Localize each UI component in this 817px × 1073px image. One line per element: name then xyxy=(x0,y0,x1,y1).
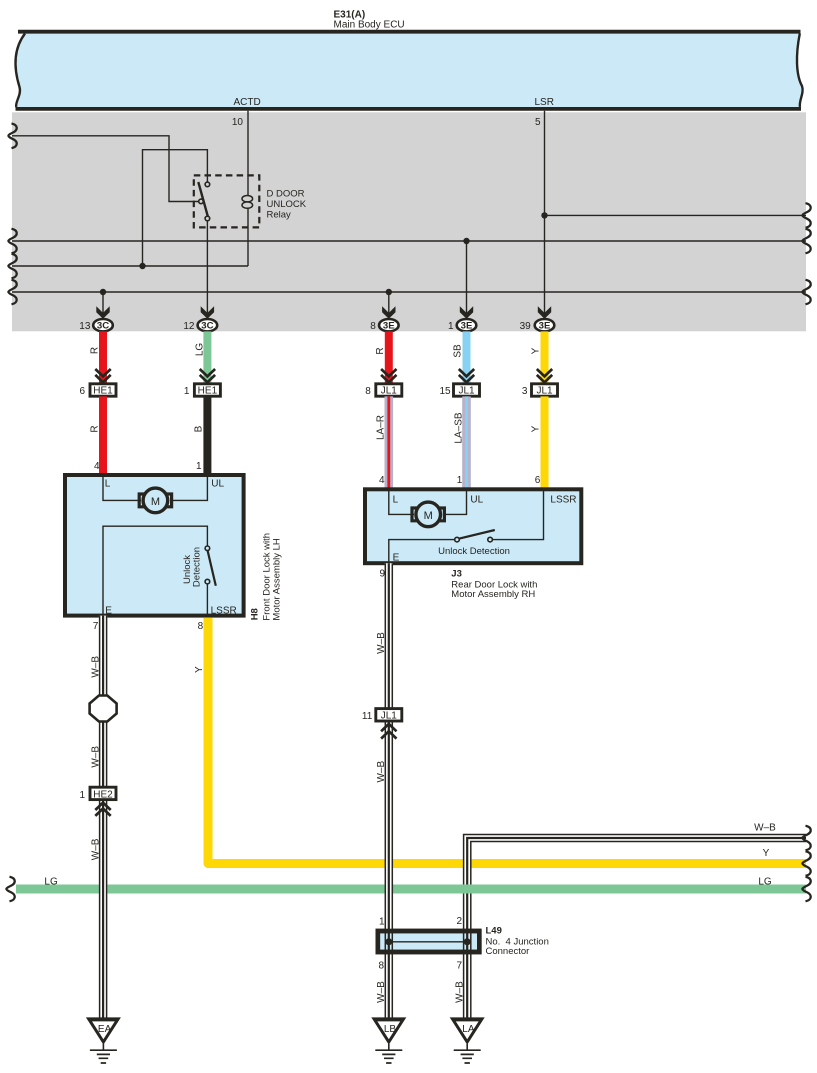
connector box 11 JL1 xyxy=(376,709,402,721)
cut squiggles right edge xyxy=(802,203,810,228)
svg-text:JL1: JL1 xyxy=(536,386,553,397)
svg-text:1: 1 xyxy=(79,790,85,801)
connector box 3 JL1 xyxy=(532,384,558,396)
H8 switch contacts xyxy=(205,546,210,551)
svg-text:Main Body ECU: Main Body ECU xyxy=(334,20,405,31)
svg-text:R: R xyxy=(375,347,386,354)
svg-text:Y: Y xyxy=(531,425,542,432)
wire W-B horizontal from right edge xyxy=(463,834,806,930)
connector box 1 HE1 xyxy=(194,384,220,396)
H8 wire L to motor xyxy=(103,476,141,500)
svg-text:1: 1 xyxy=(379,917,385,928)
cut squiggles left edge xyxy=(8,124,16,149)
svg-text:3E: 3E xyxy=(539,321,551,332)
svg-text:2: 2 xyxy=(456,916,462,927)
svg-text:39: 39 xyxy=(520,321,532,332)
svg-text:L: L xyxy=(393,495,399,506)
wire: relay switch bottom contact down to connector 12 xyxy=(206,221,208,320)
connector 8 3E: oval xyxy=(379,319,399,331)
wire Y yellow from LSSR down and right xyxy=(208,618,806,864)
svg-text:HE2: HE2 xyxy=(93,790,113,801)
svg-text:Detection: Detection xyxy=(191,547,202,587)
L49 internal bus line xyxy=(389,941,467,943)
svg-text:JL1: JL1 xyxy=(381,711,398,722)
connector 39 3E: arrow xyxy=(538,306,551,319)
cut squiggles right ends of W-B Y LG xyxy=(802,826,810,851)
svg-text:8: 8 xyxy=(198,621,204,632)
svg-text:W–B: W–B xyxy=(90,838,101,860)
svg-text:J3: J3 xyxy=(451,569,462,580)
svg-text:EA: EA xyxy=(98,1024,112,1035)
wire: bus line full width y=292 xyxy=(12,291,806,293)
ground LA xyxy=(450,1017,485,1063)
connector 13 3C: arrow xyxy=(96,306,109,319)
svg-text:3E: 3E xyxy=(461,321,473,332)
svg-text:L: L xyxy=(105,479,111,490)
ground EA xyxy=(86,1017,121,1063)
svg-text:R: R xyxy=(89,425,100,432)
ECU band right torn edge xyxy=(797,34,803,108)
wire: ACTD vertical to relay coil xyxy=(247,111,249,196)
svg-text:LG: LG xyxy=(758,876,772,887)
svg-text:LG: LG xyxy=(44,876,58,887)
H8 wire motor to UL xyxy=(170,476,207,500)
svg-text:Unlock Detection: Unlock Detection xyxy=(438,546,510,557)
svg-text:UNLOCK: UNLOCK xyxy=(267,199,307,210)
svg-text:1: 1 xyxy=(196,461,202,472)
chevrons into JL1 col5 xyxy=(537,369,552,382)
svg-text:JL1: JL1 xyxy=(458,386,475,397)
svg-text:SB: SB xyxy=(453,344,464,358)
J3 rear door lock box xyxy=(365,489,581,563)
chevrons into JL1 col3 xyxy=(381,369,396,382)
chevrons from below into JL1 xyxy=(381,724,396,739)
svg-text:Motor Assembly LH: Motor Assembly LH xyxy=(272,538,283,620)
connector box 15 JL1 xyxy=(454,384,480,396)
svg-text:5: 5 xyxy=(535,117,541,128)
svg-text:D DOOR: D DOOR xyxy=(267,189,305,200)
svg-text:11: 11 xyxy=(362,711,373,722)
svg-text:UL: UL xyxy=(211,479,224,490)
J3 switch contacts xyxy=(455,537,460,542)
svg-text:H8: H8 xyxy=(250,608,261,620)
connector 39 3E: oval xyxy=(535,319,555,331)
ground LB xyxy=(371,1017,406,1063)
svg-text:Y: Y xyxy=(194,666,205,673)
wire W-B from H8 pin7 to ground EA xyxy=(99,616,107,1019)
chevrons from below into HE2 xyxy=(95,803,110,816)
wire LG green band xyxy=(16,885,806,894)
wire R red col1 below HE1 xyxy=(99,396,107,474)
J3 motor M xyxy=(416,502,441,527)
svg-text:E: E xyxy=(105,606,112,617)
wire LG green stub col2 xyxy=(203,331,211,382)
svg-text:6: 6 xyxy=(79,386,85,397)
svg-text:HE1: HE1 xyxy=(93,386,113,397)
L49 junction connector box xyxy=(378,931,480,952)
svg-text:Relay: Relay xyxy=(267,210,292,221)
svg-text:W–B: W–B xyxy=(376,981,387,1003)
wire Y yellow stub col5 xyxy=(541,331,549,382)
svg-text:M: M xyxy=(424,510,433,522)
chevrons into HE1 col1 xyxy=(95,369,110,382)
ECU E31(A) blue band xyxy=(15,34,802,108)
svg-text:B: B xyxy=(194,425,205,432)
svg-text:LA: LA xyxy=(462,1024,475,1035)
relay coil xyxy=(242,196,253,202)
wire R red stub col3 xyxy=(385,331,393,382)
node dot L49 pin2 xyxy=(464,938,471,945)
connector 12 3C: arrow xyxy=(201,306,214,319)
svg-text:15: 15 xyxy=(439,386,451,397)
svg-text:13: 13 xyxy=(79,321,91,332)
svg-text:1: 1 xyxy=(184,386,190,397)
svg-text:3: 3 xyxy=(522,386,528,397)
connector 8 3E: arrow xyxy=(382,306,395,319)
svg-text:Connector: Connector xyxy=(486,946,530,957)
svg-text:3C: 3C xyxy=(201,321,213,332)
svg-text:7: 7 xyxy=(456,960,462,971)
connector box 6 HE1 xyxy=(90,384,116,396)
wire: bus line from LSR junction to right edge y=215.4 xyxy=(545,214,807,216)
connector 1 3E: arrow xyxy=(460,306,473,319)
svg-text:M: M xyxy=(151,496,160,508)
svg-text:W–B: W–B xyxy=(754,823,776,834)
svg-text:JL1: JL1 xyxy=(381,386,398,397)
wire LA-R col3 below JL1 xyxy=(384,396,393,488)
svg-text:UL: UL xyxy=(470,495,483,506)
H8 motor M xyxy=(143,488,168,513)
svg-text:4: 4 xyxy=(379,475,385,486)
node junction dots xyxy=(139,263,145,269)
wire: LSR vertical down to connector 39 xyxy=(544,111,546,320)
H8 front door lock box xyxy=(65,475,244,616)
wire W-B vertical into L49 pin 2 continuing to ground LA xyxy=(463,930,471,1019)
J3 unlock detection loop xyxy=(389,540,455,563)
svg-text:R: R xyxy=(89,347,100,354)
svg-text:W–B: W–B xyxy=(455,981,466,1003)
svg-text:LSR: LSR xyxy=(535,97,554,108)
svg-text:W–B: W–B xyxy=(90,656,101,678)
svg-text:3E: 3E xyxy=(383,321,395,332)
svg-text:W–B: W–B xyxy=(376,632,387,654)
wire Y yellow col5 below JL1 xyxy=(541,396,549,488)
svg-text:W–B: W–B xyxy=(376,761,387,783)
connector 13 3C: oval xyxy=(93,319,113,331)
chevrons into HE1 col2 xyxy=(200,369,215,382)
wire: bus line A from left edge to relay switch common xyxy=(12,136,199,202)
connector box 1 HE2 xyxy=(90,787,116,799)
wire: coil bottom down and left to line C xyxy=(247,209,249,267)
svg-text:Y: Y xyxy=(763,848,770,859)
svg-text:3C: 3C xyxy=(97,321,109,332)
svg-text:LG: LG xyxy=(194,343,205,357)
connector box 8 JL1 xyxy=(376,384,402,396)
wire: stub to connector 13 xyxy=(102,292,104,320)
ECU band left torn edge xyxy=(15,34,25,108)
svg-text:ACTD: ACTD xyxy=(234,97,261,108)
connector 12 3C: oval xyxy=(198,319,218,331)
J3 wire L to motor xyxy=(389,490,414,514)
svg-text:7: 7 xyxy=(93,621,99,632)
wire SB skyblue stub col4 xyxy=(463,331,471,382)
svg-text:LSSR: LSSR xyxy=(550,495,576,506)
svg-text:LSSR: LSSR xyxy=(211,606,237,617)
wire LA-SB col4 below JL1 xyxy=(462,396,471,488)
node dot L49 pin1 xyxy=(385,938,392,945)
svg-text:6: 6 xyxy=(535,475,541,486)
relay switch xyxy=(205,182,210,187)
svg-text:12: 12 xyxy=(183,321,195,332)
L49 border redraw xyxy=(378,931,480,952)
wire: bus line full width y=241 xyxy=(12,240,806,242)
wire B black col2 below HE1 xyxy=(203,396,211,474)
wire R red stub col1 xyxy=(99,331,107,382)
svg-text:E: E xyxy=(393,552,400,563)
svg-text:8: 8 xyxy=(378,961,384,972)
octagon connector on W-B xyxy=(90,696,117,722)
svg-text:Motor Assembly RH: Motor Assembly RH xyxy=(451,589,535,600)
svg-text:L49: L49 xyxy=(486,926,502,937)
svg-text:10: 10 xyxy=(232,117,244,128)
svg-text:HE1: HE1 xyxy=(198,386,218,397)
wire: stub to connector 8 xyxy=(388,292,390,320)
svg-text:LB: LB xyxy=(384,1024,397,1035)
svg-text:1: 1 xyxy=(448,321,454,332)
wire: relay switch top contact net xyxy=(143,150,208,266)
J3 wire motor to UL xyxy=(443,490,467,514)
relay D DOOR UNLOCK: dashed box xyxy=(194,175,259,227)
wire: stub to connector 1 xyxy=(466,241,468,320)
svg-text:8: 8 xyxy=(365,386,371,397)
connector 1 3E: oval xyxy=(457,319,477,331)
svg-text:4: 4 xyxy=(94,461,100,472)
svg-text:8: 8 xyxy=(370,321,376,332)
wire: bus line left to coil y=266 xyxy=(12,265,248,267)
svg-text:LA–SB: LA–SB xyxy=(453,412,464,443)
wire W-B from J3 pin9 to ground LB xyxy=(385,563,393,1018)
chevrons into JL1 col4 xyxy=(459,369,474,382)
gray harness band xyxy=(12,112,806,331)
H8 unlock detection loop xyxy=(103,526,207,615)
cut squiggle LG left xyxy=(6,877,14,902)
svg-text:1: 1 xyxy=(457,475,463,486)
svg-text:W–B: W–B xyxy=(90,746,101,768)
svg-text:Y: Y xyxy=(530,347,541,354)
svg-text:LA–R: LA–R xyxy=(376,415,387,440)
svg-text:9: 9 xyxy=(379,569,385,580)
